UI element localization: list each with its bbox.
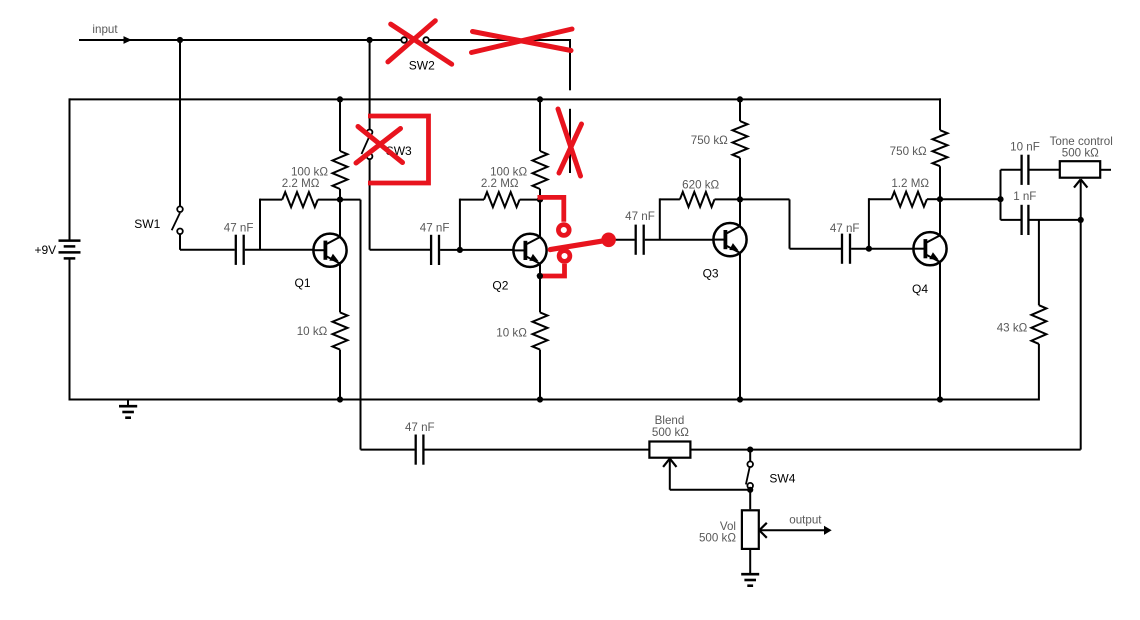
wire corner down to rail <box>569 39 571 90</box>
transistor Q4 <box>913 232 947 265</box>
resistor 2.2M Q2 <box>460 192 540 207</box>
resistor 750k Q4 <box>933 98 948 199</box>
wire Q1 tap to C5 <box>361 449 415 451</box>
svg-text:47 nF: 47 nF <box>625 210 655 223</box>
svg-text:47 nF: 47 nF <box>830 222 860 235</box>
red switch wire top <box>538 197 564 221</box>
wire input line left <box>79 39 401 41</box>
label blend 500 kOhm <box>652 426 689 439</box>
wire input to SW1 <box>179 40 181 206</box>
label C2 47 nF <box>420 222 450 235</box>
wire tone wiper <box>1080 179 1082 220</box>
label tone 500 kOhm <box>1062 147 1099 160</box>
wire Q4 collector <box>939 199 941 236</box>
label 620 kOhm <box>682 178 719 191</box>
wire C4 to Q4 base <box>851 248 914 250</box>
wire C1 to Q1 base <box>245 249 314 251</box>
label 10 kOhm Q1 <box>297 325 328 338</box>
resistor 100k Q2 <box>533 99 548 200</box>
svg-text:43 kΩ: 43 kΩ <box>997 322 1028 335</box>
node rail junction Q2 <box>537 96 543 102</box>
node blend right junction <box>747 447 753 453</box>
potentiometer tone control <box>1060 161 1111 187</box>
node tone output junction <box>1078 217 1084 223</box>
label 750 kOhm Q3 <box>691 134 728 147</box>
capacitor C1 47nF <box>236 235 244 265</box>
capacitor C2 47nF <box>431 235 439 265</box>
resistor 10k Q2 <box>533 312 548 399</box>
label C5 47 nF <box>405 421 435 434</box>
wire cut segment upper <box>569 109 571 173</box>
red X over SW2 <box>388 21 452 64</box>
node Q4 base junction <box>866 246 872 252</box>
label Tone control <box>1050 135 1113 148</box>
label 2.2 MOhm Q2 <box>481 177 519 190</box>
svg-text:500 kΩ: 500 kΩ <box>699 532 736 545</box>
wire Q3 feedback riser <box>659 198 661 239</box>
label Blend <box>655 414 685 427</box>
wire C6 to tone pot <box>1030 169 1060 171</box>
svg-text:2.2 MΩ: 2.2 MΩ <box>481 177 519 190</box>
wire Q2 feedback drop <box>459 199 461 250</box>
svg-text:1.2 MΩ: 1.2 MΩ <box>891 177 929 190</box>
red X over input wire segment <box>472 29 573 53</box>
red switch contact bottom <box>559 251 570 262</box>
svg-text:input: input <box>92 23 118 36</box>
resistor 1.2M Q4 <box>869 192 940 207</box>
label output <box>789 514 822 527</box>
svg-text:1 nF: 1 nF <box>1013 190 1036 203</box>
label C3 47 nF <box>625 210 655 223</box>
switch SW3 <box>362 130 373 160</box>
resistor 43k <box>1031 220 1046 401</box>
wire Q1 feedback drop <box>259 199 261 250</box>
node Q4 emitter at rail <box>937 396 943 402</box>
wire Q1 emitter <box>339 263 341 313</box>
label C4 47 nF <box>830 222 860 235</box>
wire blend wiper <box>670 459 750 490</box>
wire Q2 collector <box>539 200 541 238</box>
wire Q4 emitter <box>939 261 941 400</box>
node Q4 collector junction <box>937 196 943 202</box>
label SW2 <box>409 59 435 73</box>
node Q1 emitter at rail <box>337 396 343 402</box>
node Q3 emitter at rail <box>737 396 743 402</box>
resistor 100k Q1 <box>333 99 348 200</box>
node Q2 collector junction <box>537 197 543 203</box>
node Q2 emitter at rail <box>537 396 543 402</box>
potentiometer blend <box>649 442 690 467</box>
svg-text:10 kΩ: 10 kΩ <box>297 325 328 338</box>
wire switch common to C3 <box>610 239 635 241</box>
transistor Q2 <box>513 234 547 267</box>
wire bottom ground rail <box>69 399 1039 401</box>
svg-text:Q4: Q4 <box>912 282 928 296</box>
capacitor C4 47nF <box>842 234 850 264</box>
wire C2 to Q2 base <box>440 249 514 251</box>
wire Q1 collector tap to blend <box>340 200 361 450</box>
svg-text:Blend: Blend <box>655 414 685 427</box>
label SW3 <box>386 144 412 158</box>
capacitor C6 10nF <box>1022 155 1029 185</box>
label +9V <box>34 243 56 257</box>
wire C5 to blend pot <box>425 449 650 451</box>
ground vol <box>741 574 759 586</box>
svg-text:Q2: Q2 <box>492 278 508 292</box>
switch SW4 <box>746 450 753 489</box>
svg-text:750 kΩ: 750 kΩ <box>691 134 728 147</box>
wire top supply rail <box>70 98 942 100</box>
wire C7 to junction <box>1030 219 1081 221</box>
potentiometer vol <box>742 510 759 549</box>
node input junction to SW1 <box>177 37 183 43</box>
wire SW1 to C1 <box>180 234 235 250</box>
label C1 47 nF <box>224 222 254 235</box>
wire SW2 to corner <box>429 39 571 41</box>
switch SW2 <box>401 37 429 43</box>
svg-text:output: output <box>789 514 822 527</box>
svg-text:47 nF: 47 nF <box>405 421 435 434</box>
label Q4 <box>912 282 928 296</box>
label 10 kOhm Q2 <box>496 326 527 339</box>
wire input to SW3 <box>369 40 371 130</box>
wire blend to SW4 <box>690 449 750 451</box>
wire SW3 to C2 <box>370 159 430 250</box>
label 2.2 MOhm Q1 <box>282 177 320 190</box>
transistor Q1 <box>313 234 347 267</box>
wire vol to ground <box>749 549 751 574</box>
transistor Q3 <box>713 223 747 256</box>
svg-text:SW1: SW1 <box>134 217 160 231</box>
label 750 kOhm Q4 <box>890 145 927 158</box>
resistor 2.2M Q1 <box>260 192 340 207</box>
svg-text:750 kΩ: 750 kΩ <box>890 145 927 158</box>
label Q3 <box>703 267 719 281</box>
label input <box>92 23 118 36</box>
capacitor C7 1nF <box>1022 205 1029 235</box>
label SW4 <box>769 472 795 486</box>
red switch common dot <box>601 233 616 248</box>
red box around SW3 <box>368 116 429 183</box>
label vol 500 kOhm <box>699 532 736 545</box>
wire Q4 to tone network <box>940 198 1001 200</box>
node Q1 collector junction <box>337 197 343 203</box>
red switch lever <box>550 240 607 249</box>
svg-text:10 nF: 10 nF <box>1010 141 1040 154</box>
svg-text:500 kΩ: 500 kΩ <box>652 426 689 439</box>
wire Q4 feedback drop <box>868 198 870 249</box>
wire Q2 emitter <box>539 263 541 312</box>
svg-text:Q3: Q3 <box>703 267 719 281</box>
capacitor C5 47nF <box>416 435 424 465</box>
wire Q1 collector <box>339 200 341 238</box>
label Q2 <box>492 278 508 292</box>
svg-text:47 nF: 47 nF <box>224 222 254 235</box>
node Q2 base junction <box>457 247 463 253</box>
wire left supply drop <box>69 98 71 241</box>
label 1.2 MOhm <box>891 177 929 190</box>
node tone network junction <box>997 196 1003 202</box>
node input junction to SW3 <box>367 37 373 43</box>
label 43 kOhm <box>997 322 1028 335</box>
label Q1 <box>294 276 310 290</box>
node wiper junction <box>747 487 753 493</box>
svg-text:Q1: Q1 <box>294 276 310 290</box>
red X over cut wire <box>558 109 582 176</box>
resistor 750k Q3 <box>733 99 748 199</box>
label 1 nF <box>1013 190 1036 203</box>
wire tone to blend bus <box>750 220 1080 450</box>
svg-text:SW2: SW2 <box>409 59 435 73</box>
label SW1 <box>134 217 160 231</box>
resistor 10k Q1 <box>333 312 348 399</box>
wire vol wiper output <box>759 523 831 538</box>
svg-text:500 kΩ: 500 kΩ <box>1062 147 1099 160</box>
svg-text:+9V: +9V <box>34 243 56 257</box>
svg-text:2.2 MΩ: 2.2 MΩ <box>282 177 320 190</box>
wire to C6 <box>1001 169 1021 171</box>
svg-text:10 kΩ: 10 kΩ <box>496 326 527 339</box>
capacitor C3 47nF <box>636 225 644 255</box>
wire C3 to Q3 base <box>645 239 715 241</box>
svg-text:47 nF: 47 nF <box>420 222 450 235</box>
wire tone vertical <box>1000 170 1002 220</box>
node rail junction Q3 <box>737 96 743 102</box>
svg-text:SW4: SW4 <box>769 472 795 486</box>
label 100 kOhm Q2 <box>490 166 527 179</box>
label 10 nF <box>1010 141 1040 154</box>
wire to C7 <box>1001 219 1021 221</box>
input arrowhead <box>124 36 132 44</box>
battery +9V <box>59 241 81 401</box>
ground main <box>119 400 137 418</box>
wire SW4 to vol <box>749 489 751 510</box>
red X over SW3 <box>356 127 403 164</box>
label 100 kOhm Q1 <box>291 166 328 179</box>
switch SW1 <box>172 206 183 234</box>
red switch wire bottom <box>539 264 565 276</box>
node Q2 emitter tap <box>537 273 543 279</box>
label Vol <box>720 520 736 533</box>
node rail junction Q1 <box>337 96 343 102</box>
wire Q3 collector <box>739 199 741 226</box>
svg-text:620 kΩ: 620 kΩ <box>682 178 719 191</box>
resistor 620k Q3 <box>660 192 740 207</box>
red switch contact top <box>558 225 569 236</box>
wire Q3 emitter <box>739 252 741 399</box>
wire Q3 to Q4 coupling <box>740 199 841 248</box>
node Q2 emitter tap dot <box>537 273 543 279</box>
node Q3 collector junction <box>737 196 743 202</box>
